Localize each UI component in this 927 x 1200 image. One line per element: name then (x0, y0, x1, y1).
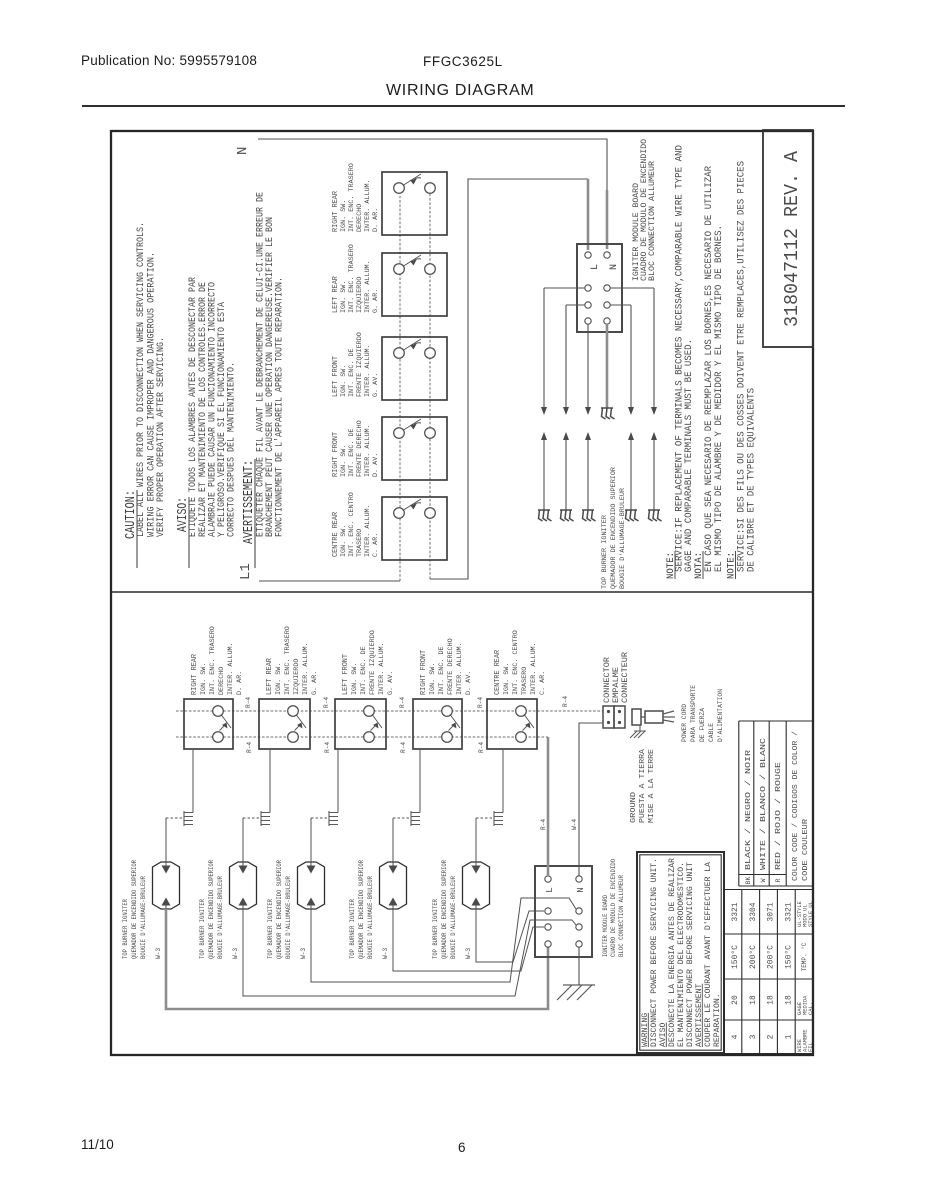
svg-text:INT. ENC. DE: INT. ENC. DE (348, 348, 356, 397)
svg-text:3321: 3321 (731, 902, 740, 921)
svg-text:BOUGIE D'ALLUMAGE-BRULEUR: BOUGIE D'ALLUMAGE-BRULEUR (367, 876, 374, 959)
svg-text:IGN. SW.: IGN. SW. (340, 200, 348, 232)
svg-text:W-3: W-3 (382, 948, 389, 959)
label for switch SW3 (LEFT FRONT) (332, 332, 380, 397)
svg-text:DESCONECTE LA ENERGIA ANTES DE: DESCONECTE LA ENERGIA ANTES DE REALIZAR (669, 858, 677, 1047)
top burner igniter electrode E4 (625, 510, 639, 521)
svg-text:INT. ENC. TRASERO: INT. ENC. TRASERO (284, 626, 292, 695)
svg-text:TOP BURNER IGNITER: TOP BURNER IGNITER (601, 515, 609, 589)
wire spark output 5 from board U1 (610, 288, 657, 510)
svg-text:COUPER LE COURANT AVANT D'EFFE: COUPER LE COURANT AVANT D'EFFECTUER LA (705, 862, 713, 1047)
svg-text:IZQUIERDO: IZQUIERDO (293, 659, 301, 695)
avertissement note text block (242, 192, 286, 568)
label for igniter FS1 (122, 860, 147, 959)
svg-text:IGNITER MODULE BOARD: IGNITER MODULE BOARD (602, 895, 609, 957)
svg-text:R-4: R-4 (324, 742, 331, 753)
top burner igniter electrode E5 (648, 510, 662, 521)
svg-text:C. AR.: C. AR. (539, 671, 547, 695)
svg-text:BOUGIE D'ALLUMAGE-BRULEUR: BOUGIE D'ALLUMAGE-BRULEUR (140, 876, 147, 959)
svg-text:2: 2 (767, 1034, 776, 1039)
wire board U1 chassis ground (thick) (606, 325, 609, 408)
wire N board U2 to connector (579, 723, 603, 876)
wire igniter FS5 return to board U2 (476, 909, 544, 962)
svg-text:LEFT REAR: LEFT REAR (266, 657, 274, 695)
aviso note text block (176, 276, 238, 568)
svg-text:FONCTIONNEMENT DE L'APPAREIL A: FONCTIONNEMENT DE L'APPAREIL APRES TOUTE… (274, 277, 286, 537)
wire designator labels R-4 between switches (245, 696, 569, 753)
label for board U2 (602, 859, 625, 957)
ignition switch SW9 (RIGHT FRONT) (413, 699, 462, 749)
svg-text:COLOR CODE / CODIGOS DE COLOR: COLOR CODE / CODIGOS DE COLOR / (792, 731, 800, 881)
spark electrode comb for FS1 (184, 811, 193, 826)
svg-text:318047112 REV. A: 318047112 REV. A (781, 150, 803, 327)
svg-text:TOP BURNER IGNITER: TOP BURNER IGNITER (432, 899, 439, 959)
svg-text:1: 1 (784, 1034, 793, 1039)
top burner igniter electrode E3 (582, 510, 596, 521)
label for board U1 (632, 139, 657, 281)
svg-text:D. AV.: D. AV. (372, 453, 380, 477)
wire right bus (to connector) bottom panel (176, 710, 603, 712)
svg-text:POWER CORD: POWER CORD (681, 704, 689, 742)
svg-text:4: 4 (731, 1034, 740, 1039)
svg-text:R-4: R-4 (562, 696, 569, 707)
svg-text:R-4: R-4 (399, 697, 406, 708)
warning text box (637, 852, 724, 1053)
label ground (power cord) (630, 748, 656, 823)
wire comb FS5 to switch SW10 (502, 749, 504, 813)
svg-text:RIGHT FRONT: RIGHT FRONT (420, 650, 428, 695)
svg-text:N: N (576, 887, 586, 892)
svg-text:INT. ENC. DE: INT. ENC. DE (360, 646, 368, 695)
svg-text:R-4: R-4 (245, 697, 252, 708)
spark electrode comb for FS3 (329, 811, 338, 826)
svg-text:G. AR.: G. AR. (311, 671, 319, 695)
svg-text:18: 18 (749, 995, 758, 1005)
spark electrode comb for FS4 (411, 811, 420, 826)
label for switch SW7 (LEFT REAR) (266, 626, 319, 695)
svg-text:INT. ENC. TRASERO: INT. ENC. TRASERO (348, 244, 356, 313)
svg-text:QUEMADOR DE ENCENDIDO SUPERIOR: QUEMADOR DE ENCENDIDO SUPERIOR (208, 860, 215, 959)
svg-text:BOUGIE D'ALLUMAGE-BRULEUR: BOUGIE D'ALLUMAGE-BRULEUR (619, 488, 627, 589)
svg-text:D'ALIMENTATION: D'ALIMENTATION (717, 689, 725, 742)
svg-text:DE FUERZA: DE FUERZA (699, 707, 707, 742)
wire left bus bottom panel (176, 736, 548, 738)
wire comb FS4 to switch SW9 (419, 749, 421, 813)
top burner igniter FS1 (octagon spark module) (153, 862, 180, 909)
svg-text:IGN. SW.: IGN. SW. (429, 663, 437, 695)
label for igniter FS4 (349, 860, 374, 959)
top burner igniter electrode E2 (560, 510, 574, 521)
svg-text:LEFT FRONT: LEFT FRONT (342, 654, 350, 695)
label for connector J1 (603, 652, 630, 703)
ignition switch SW3 (LEFT FRONT) (382, 337, 447, 400)
svg-text:TOP BURNER IGNITER: TOP BURNER IGNITER (267, 899, 274, 959)
svg-text:W-4: W-4 (571, 819, 578, 830)
wire comb FS1 to switch SW6 (192, 749, 194, 813)
svg-text:CONNECTEUR: CONNECTEUR (621, 652, 630, 703)
svg-text:IGN. SW.: IGN. SW. (275, 663, 283, 695)
wire switched-L wrap to board U1 terminal L (430, 179, 588, 579)
svg-text:INT. ENC. DE: INT. ENC. DE (438, 646, 446, 695)
wire spark output 4 from board U1 (610, 305, 634, 510)
wire bottom bus through ignition switches to board L (429, 188, 431, 579)
spark electrode comb for FS2 (261, 811, 270, 826)
svg-text:BLACK / NEGRO / NOIR: BLACK / NEGRO / NOIR (745, 749, 753, 870)
svg-text:TRASERO: TRASERO (356, 529, 364, 557)
svg-text:RIGHT REAR: RIGHT REAR (332, 190, 340, 232)
ignition switch SW10 (CENTRE REAR) (487, 699, 537, 749)
svg-text:INTER. ALLUM.: INTER. ALLUM. (364, 260, 372, 313)
wire igniter FS5 to spark electrode comb (476, 818, 493, 862)
svg-text:RED / ROJO / ROUGE: RED / ROJO / ROUGE (775, 761, 783, 870)
svg-text:IGN. SW.: IGN. SW. (340, 365, 348, 397)
svg-text:WHITE / BLANCO / BLANC: WHITE / BLANCO / BLANC (760, 737, 768, 870)
wire igniter FS3 to spark electrode comb (311, 818, 328, 862)
svg-text:TEMP. °C: TEMP. °C (801, 942, 808, 971)
svg-text:INTER. ALLUM.: INTER. ALLUM. (378, 642, 386, 695)
ignition switch SW8 (LEFT FRONT) (335, 699, 386, 749)
svg-text:IGN. SW.: IGN. SW. (340, 281, 348, 313)
wire top bus L1 through ignition switches (399, 188, 401, 581)
svg-text:CODE COULEUR: CODE COULEUR (802, 819, 810, 881)
svg-text:W-3: W-3 (465, 948, 472, 959)
svg-text:EL MANTENIMIENTO DEL ELECTRODO: EL MANTENIMIENTO DEL ELECTRODOMESTICO. (678, 862, 686, 1047)
label for switch SW4 (LEFT REAR) (332, 244, 380, 313)
label for igniter FS2 (199, 860, 224, 959)
svg-text:FRENTE IZQUIERDO: FRENTE IZQUIERDO (369, 630, 377, 695)
top burner igniter electrode E1 (538, 510, 552, 521)
label for switch SW9 (RIGHT FRONT) (420, 638, 473, 695)
label for switch SW6 (RIGHT REAR) (191, 626, 244, 695)
svg-text:REPARATION.: REPARATION. (714, 993, 722, 1047)
footer: page number (458, 1140, 466, 1155)
spark electrode comb for FS5 (494, 811, 503, 826)
svg-text:3304: 3304 (749, 902, 758, 921)
svg-text:DISCONNECT POWER BEFORE SERVIC: DISCONNECT POWER BEFORE SERVICING UNIT. (651, 858, 659, 1047)
svg-text:FRENTE IZQUIERDO: FRENTE IZQUIERDO (356, 332, 364, 397)
svg-text:INTER. ALLUM.: INTER. ALLUM. (302, 642, 310, 695)
svg-text:TRASERO: TRASERO (521, 667, 529, 695)
label for switch SW1 (CENTRE REAR) (332, 492, 380, 557)
svg-text:G. AR.: G. AR. (372, 289, 380, 313)
svg-text:LEFT REAR: LEFT REAR (332, 275, 340, 313)
svg-text:C. AR.: C. AR. (372, 533, 380, 557)
svg-text:150°C: 150°C (784, 945, 793, 969)
svg-text:EL MISMO TIPO DE ALAMBRE Y DE: EL MISMO TIPO DE ALAMBRE Y DE MEDIDOR Y … (714, 225, 725, 572)
header: page title WIRING DIAGRAM (386, 82, 534, 100)
svg-text:20: 20 (731, 995, 740, 1005)
svg-text:W-3: W-3 (155, 948, 162, 959)
svg-text:200°C: 200°C (767, 945, 776, 969)
svg-text:18: 18 (784, 995, 793, 1005)
wire L1 feed to top bus (259, 580, 400, 582)
svg-text:R-4: R-4 (400, 742, 407, 753)
svg-text:TOP BURNER IGNITER: TOP BURNER IGNITER (122, 899, 129, 959)
svg-text:QUEMADOR DE ENCENDIDO SUPERIOR: QUEMADOR DE ENCENDIDO SUPERIOR (610, 467, 618, 589)
wire igniter FS4 return to board U2 (393, 909, 544, 971)
wire igniter FS3 return to board U2 (311, 898, 576, 982)
wire igniter FS2 to spark electrode comb (243, 818, 260, 862)
svg-text:18: 18 (767, 995, 776, 1005)
label for switch SW5 (RIGHT REAR) (332, 163, 380, 232)
svg-text:L1: L1 (238, 563, 254, 580)
svg-text:W: W (760, 878, 767, 882)
ignition switch SW2 (RIGHT FRONT) (382, 417, 447, 480)
header: publication number (81, 53, 257, 68)
svg-text:INTER. ALLUM.: INTER. ALLUM. (364, 344, 372, 397)
svg-text:D. AV.: D. AV. (465, 671, 473, 695)
svg-text:GAGE AND COMPARABLE TERMINALS: GAGE AND COMPARABLE TERMINALS MUST BE US… (684, 339, 695, 572)
svg-text:QUEMADOR DE ENCENDIDO SUPERIOR: QUEMADOR DE ENCENDIDO SUPERIOR (358, 860, 365, 959)
svg-text:GROUND: GROUND (630, 791, 638, 823)
title block box 318047112 REV. A (763, 130, 813, 347)
wire plug chassis ground stub (639, 725, 641, 731)
svg-text:CENTRE REAR: CENTRE REAR (332, 511, 340, 557)
svg-text:FRENTE DERECHO: FRENTE DERECHO (356, 420, 364, 477)
svg-text:L: L (590, 264, 601, 270)
label for switch SW2 (RIGHT FRONT) (332, 420, 380, 477)
note text block (terminal replacement) (666, 145, 758, 579)
svg-text:D. AR.: D. AR. (372, 208, 380, 232)
color code table (739, 721, 813, 886)
main diagram border frame (111, 131, 813, 1055)
svg-text:RIGHT REAR: RIGHT REAR (191, 653, 199, 695)
label for switch SW8 (LEFT FRONT) (342, 630, 395, 695)
wire gauge table (724, 890, 814, 1054)
svg-text:VERIFY PROPER OPERATION AFTER: VERIFY PROPER OPERATION AFTER SERVICING. (155, 337, 167, 537)
panel divider line (111, 591, 813, 593)
svg-text:G. AV.: G. AV. (372, 373, 380, 397)
svg-text:CUADRO DE MODULO DE ENCENDIDO: CUADRO DE MODULO DE ENCENDIDO (610, 859, 617, 957)
board U2 terminal pins (545, 876, 582, 947)
svg-text:INT. ENC. TRASERO: INT. ENC. TRASERO (348, 163, 356, 232)
svg-text:DE CALIBRE ET DE TYPES EQUIVAL: DE CALIBRE ET DE TYPES EQUIVALENTS (747, 388, 758, 572)
svg-text:BLOC CONNECTION ALLUMEUR: BLOC CONNECTION ALLUMEUR (618, 875, 625, 957)
svg-text:R-4: R-4 (477, 697, 484, 708)
svg-text:PARA TRANSPORTE: PARA TRANSPORTE (690, 685, 698, 742)
svg-text:N: N (609, 264, 620, 270)
top burner igniter FS2 (octagon spark module) (230, 862, 257, 909)
svg-text:BK: BK (745, 877, 752, 885)
svg-text:BOUGIE D'ALLUMAGE-BRULEUR: BOUGIE D'ALLUMAGE-BRULEUR (217, 876, 224, 959)
wire igniter FS1 return to board U2 (thick) (166, 909, 548, 1009)
svg-text:R-4: R-4 (246, 742, 253, 753)
ignition switch SW4 (LEFT REAR) (382, 253, 447, 316)
svg-text:DERECHO: DERECHO (218, 667, 226, 695)
svg-text:R-4: R-4 (323, 697, 330, 708)
svg-text:IGN. SW.: IGN. SW. (340, 525, 348, 557)
svg-text:W-3: W-3 (300, 948, 307, 959)
wire igniter FS2 return to board U2 (243, 909, 576, 996)
chassis ground electrode for board U1 (601, 408, 615, 419)
svg-text:QUEMADOR DE ENCENDIDO SUPERIOR: QUEMADOR DE ENCENDIDO SUPERIOR (131, 860, 138, 959)
label top burner igniter (top panel) (601, 467, 627, 589)
svg-text:MISE A LA TERRE: MISE A LA TERRE (648, 748, 656, 823)
svg-text:INTER. ALLUM.: INTER. ALLUM. (364, 504, 372, 557)
svg-text:IGN. SW.: IGN. SW. (351, 663, 359, 695)
label for switch SW10 (CENTRE REAR) (494, 630, 547, 695)
svg-text:INT. ENC. CENTRO: INT. ENC. CENTRO (348, 492, 356, 557)
svg-text:DISCONNECT POWER BEFORE SERVIC: DISCONNECT POWER BEFORE SERVICING UNIT (687, 862, 695, 1047)
svg-text:W-3: W-3 (232, 948, 239, 959)
svg-text:FRENTE DERECHO: FRENTE DERECHO (447, 638, 455, 695)
wire spark output 1 from board U1 (541, 288, 585, 510)
svg-text:N: N (235, 147, 251, 155)
svg-text:3071: 3071 (767, 902, 776, 921)
svg-text:INTER. ALLUM.: INTER. ALLUM. (364, 424, 372, 477)
igniter module board U2 box (535, 866, 592, 957)
svg-text:R: R (775, 878, 782, 882)
svg-text:BLOC CONNECTION ALLUMEUR: BLOC CONNECTION ALLUMEUR (648, 161, 657, 281)
svg-text:TOP BURNER IGNITER: TOP BURNER IGNITER (199, 899, 206, 959)
svg-text:FIL: FIL (808, 1042, 814, 1052)
svg-text:DERECHO: DERECHO (356, 204, 364, 232)
svg-text:INTER. ALLUM.: INTER. ALLUM. (530, 642, 538, 695)
svg-text:D. AR.: D. AR. (236, 671, 244, 695)
svg-text:INT. ENC. DE: INT. ENC. DE (348, 428, 356, 477)
svg-text:QUEMADOR DE ENCENDIDO SUPERIOR: QUEMADOR DE ENCENDIDO SUPERIOR (276, 860, 283, 959)
svg-text:CONNECTOR: CONNECTOR (603, 657, 612, 703)
svg-text:INT. ENC. TRASERO: INT. ENC. TRASERO (209, 626, 217, 695)
footer: date code (81, 1137, 114, 1152)
wire igniter FS4 to spark electrode comb (393, 818, 410, 862)
caution note text block (124, 222, 167, 568)
chassis ground symbol (power cord) (630, 731, 646, 738)
connector J1 (2-pole) (603, 706, 625, 728)
svg-text:IGN. SW.: IGN. SW. (503, 663, 511, 695)
label for igniter FS3 (267, 860, 292, 959)
svg-text:RIGHT FRONT: RIGHT FRONT (332, 432, 340, 477)
svg-text:CORRECTO DESPUES DEL MANTENIMI: CORRECTO DESPUES DEL MANTENIMIENTO. (226, 362, 238, 537)
wire spark output 3 from board U1 (585, 324, 591, 510)
wire comb FS2 to switch SW7 (269, 749, 271, 813)
svg-text:IGN. SW.: IGN. SW. (200, 663, 208, 695)
wire N feed to igniter module board U1 (258, 139, 607, 194)
svg-text:INTER. ALLUM.: INTER. ALLUM. (364, 179, 372, 232)
svg-text:INTER. ALLUM.: INTER. ALLUM. (456, 642, 464, 695)
igniter module board U1 box (577, 244, 622, 332)
svg-text:200°C: 200°C (749, 945, 758, 969)
ignition switch SW1 (CENTRE REAR) (382, 497, 447, 560)
header: model number (423, 54, 503, 69)
wire L feed bus to board U2 (thick) (547, 737, 550, 876)
wire board U2 to chassis ground (578, 947, 580, 985)
svg-text:BOUGIE D'ALLUMAGE-BRULEUR: BOUGIE D'ALLUMAGE-BRULEUR (285, 876, 292, 959)
power cord plug body (645, 711, 663, 723)
svg-text:EMPALME: EMPALME (612, 667, 621, 703)
label for igniter FS5 (432, 860, 457, 959)
svg-text:TOP BURNER IGNITER: TOP BURNER IGNITER (349, 899, 356, 959)
wire igniter FS1 to spark electrode comb (166, 818, 183, 862)
chassis ground symbol (board U2) (557, 985, 595, 1000)
svg-text:G. AV.: G. AV. (387, 671, 395, 695)
svg-text:L: L (545, 887, 555, 892)
svg-text:INTER. ALLUM.: INTER. ALLUM. (227, 642, 235, 695)
top burner igniter FS3 (octagon spark module) (298, 862, 325, 909)
svg-text:IZQUIERDO: IZQUIERDO (356, 277, 364, 313)
svg-text:STYLE UL: STYLE UL (808, 901, 814, 927)
wire comb FS3 to switch SW8 (337, 749, 339, 813)
svg-text:IGN. SW.: IGN. SW. (340, 445, 348, 477)
power cord prongs (663, 711, 675, 722)
svg-text:BOUGIE D'ALLUMAGE-BRULEUR: BOUGIE D'ALLUMAGE-BRULEUR (450, 876, 457, 959)
svg-text:CAL.: CAL. (808, 1002, 814, 1015)
top burner igniter FS4 (octagon spark module) (380, 862, 407, 909)
svg-text:INT. ENC. CENTRO: INT. ENC. CENTRO (512, 630, 520, 695)
ignition switch SW7 (LEFT REAR) (259, 699, 310, 749)
ignition switch SW5 (RIGHT REAR) (382, 172, 447, 235)
svg-text:CENTRE REAR: CENTRE REAR (494, 649, 502, 695)
svg-text:CABLE: CABLE (708, 723, 716, 742)
svg-text:LEFT FRONT: LEFT FRONT (332, 356, 340, 397)
svg-text:PUESTA A TIERRA: PUESTA A TIERRA (639, 748, 647, 823)
header rule line (82, 105, 845, 107)
svg-text:3: 3 (749, 1034, 758, 1039)
svg-text:R-4: R-4 (540, 819, 547, 830)
svg-text:150°C: 150°C (731, 945, 740, 969)
power cord strain relief (632, 709, 641, 725)
label for power cord (681, 685, 725, 742)
svg-text:3321: 3321 (784, 902, 793, 921)
ignition switch SW6 (RIGHT REAR) (184, 699, 233, 749)
wire spark output 2 from board U1 (563, 305, 585, 510)
svg-text:R-4: R-4 (478, 742, 485, 753)
board U1 terminal pins (585, 252, 610, 324)
top burner igniter FS5 (octagon spark module) (463, 862, 490, 909)
svg-text:QUEMADOR DE ENCENDIDO SUPERIOR: QUEMADOR DE ENCENDIDO SUPERIOR (441, 860, 448, 959)
